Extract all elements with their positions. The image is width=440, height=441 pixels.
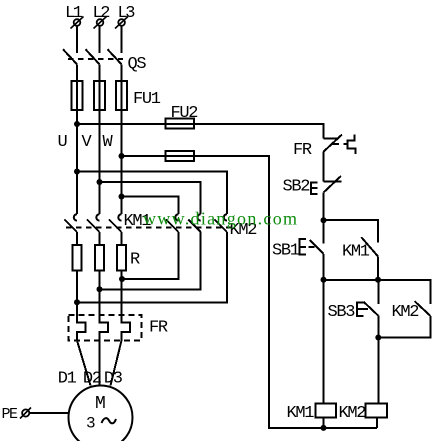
svg-text:L3: L3 (118, 4, 136, 23)
svg-text:PE: PE (2, 406, 19, 423)
svg-text:KM2: KM2 (339, 404, 366, 423)
svg-text:L1: L1 (65, 4, 83, 23)
svg-text:www.diangon.com: www.diangon.com (143, 209, 298, 229)
svg-text:L2: L2 (93, 4, 110, 23)
svg-text:U: U (58, 133, 67, 152)
svg-text:D2: D2 (83, 370, 101, 389)
svg-text:R: R (130, 251, 140, 270)
svg-text:FU2: FU2 (171, 104, 198, 123)
svg-text:KM1: KM1 (342, 243, 370, 262)
svg-text:FR: FR (149, 319, 168, 338)
svg-text:D1: D1 (58, 370, 77, 389)
svg-text:QS: QS (128, 55, 147, 74)
svg-text:SB2: SB2 (283, 178, 310, 197)
svg-text:SB1: SB1 (272, 242, 300, 261)
svg-text:KM2: KM2 (392, 303, 419, 322)
svg-text:3: 3 (86, 415, 96, 433)
svg-text:FU1: FU1 (133, 90, 161, 109)
svg-text:KM1: KM1 (287, 404, 315, 423)
svg-text:FR: FR (293, 141, 312, 160)
svg-text:SB3: SB3 (328, 303, 356, 322)
svg-text:M: M (95, 394, 106, 414)
svg-text:D3: D3 (104, 370, 123, 389)
